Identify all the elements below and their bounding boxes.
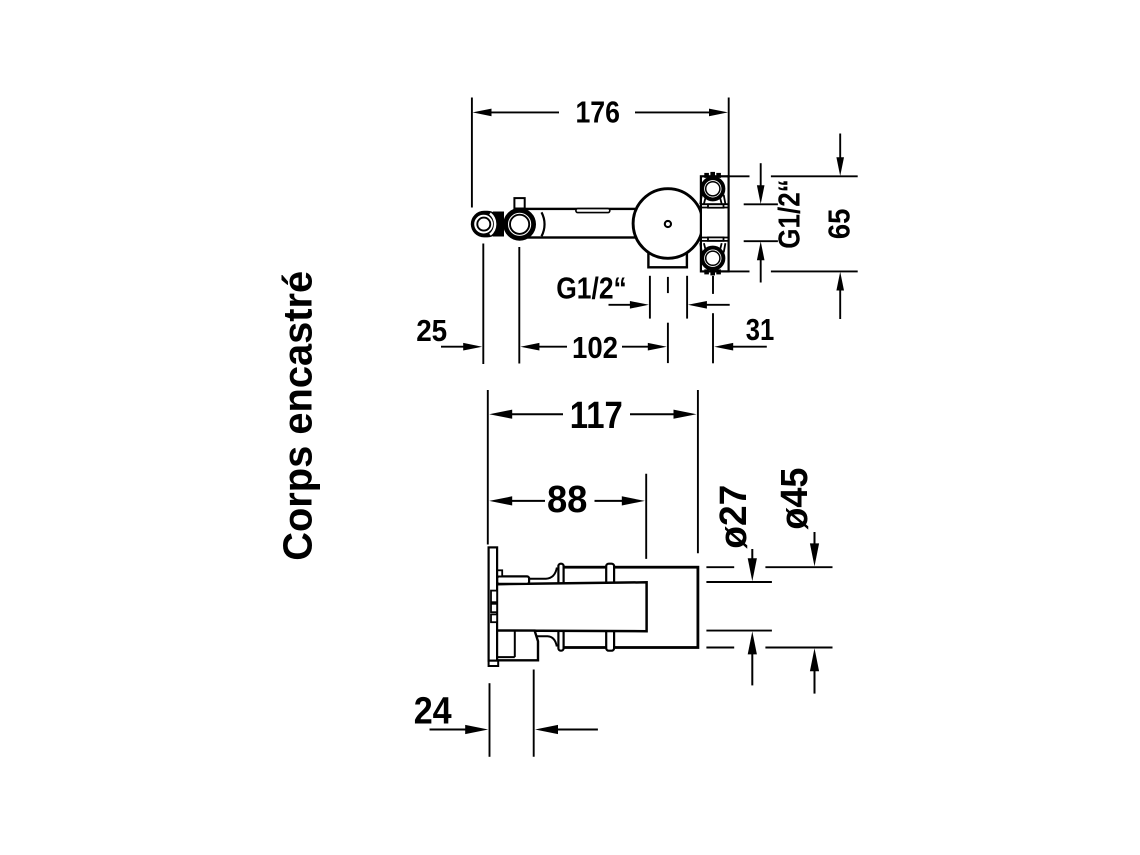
extension line left fitting center — [482, 244, 484, 365]
valve body circle — [633, 189, 703, 259]
dimension G1/2 right arrows — [757, 163, 765, 282]
body bar — [517, 209, 640, 238]
bosses — [491, 591, 497, 603]
label 65 (rotated) — [822, 209, 857, 240]
leader lines ø27 — [706, 581, 772, 583]
label ø27 (rotated) — [713, 485, 755, 549]
fitting nut F2 — [493, 198, 545, 238]
svg-text:25: 25 — [416, 313, 447, 348]
extension line left of dim 24 — [489, 683, 491, 757]
svg-text:24: 24 — [414, 690, 452, 732]
title Corps encastré — [275, 271, 321, 561]
fitting end cap F1 — [471, 211, 501, 238]
collar ring mid — [606, 564, 614, 651]
extension line right fitting center — [712, 276, 714, 363]
svg-text:ø45: ø45 — [774, 468, 816, 530]
label ø45 (rotated) — [774, 468, 816, 530]
svg-text:65: 65 — [822, 209, 857, 240]
dimension 102 — [520, 330, 666, 365]
dimension 88 — [489, 479, 645, 521]
outlet port below valve — [648, 246, 687, 267]
dimension 25 — [416, 313, 482, 351]
dimension 117 — [489, 395, 696, 437]
svg-text:88: 88 — [547, 479, 588, 521]
dimension ø45 arrows — [810, 532, 819, 694]
top step — [497, 570, 502, 576]
bottom inlet fitting — [700, 243, 725, 275]
extension line right of dim 176 — [728, 98, 730, 177]
center dashed line — [667, 277, 669, 363]
dimension 65 arrows — [836, 134, 844, 320]
svg-text:Corps encastré: Corps encastré — [275, 271, 321, 561]
leader lines ø45 — [706, 567, 832, 647]
inner tube — [491, 582, 647, 631]
extension lines under port — [649, 276, 651, 319]
dimension 24 — [414, 690, 598, 734]
svg-text:ø27: ø27 — [713, 485, 755, 549]
svg-text:102: 102 — [572, 330, 618, 365]
neck top — [529, 568, 557, 579]
top inlet fitting — [700, 172, 725, 204]
extension line second fitting center — [518, 247, 520, 364]
svg-text:117: 117 — [570, 395, 623, 437]
extension line left of dim 117 — [487, 390, 489, 545]
extension line right of dim 24 — [533, 670, 535, 757]
label G1/2 right (rotated) — [772, 179, 807, 249]
svg-text:31: 31 — [746, 312, 775, 347]
dimension 31 — [714, 312, 774, 351]
leader lines port bases — [744, 204, 778, 241]
extension line right of dim 117 — [697, 390, 699, 553]
svg-text:G1/2“: G1/2“ — [772, 179, 807, 249]
svg-text:176: 176 — [575, 95, 620, 130]
valve center dot — [665, 221, 671, 227]
dimension ø27 arrows — [748, 549, 757, 685]
plate foot — [489, 661, 499, 666]
svg-text:G1/2“: G1/2“ — [556, 271, 627, 306]
dimension G1/2 bottom arrows — [609, 301, 730, 309]
outer sleeve — [561, 567, 698, 647]
wall plate — [489, 547, 498, 660]
dimension 176 — [473, 95, 729, 130]
leader lines bracket outer edges — [727, 176, 858, 271]
body side view — [489, 547, 698, 666]
collar ring left — [558, 564, 563, 651]
lower block — [491, 631, 538, 661]
extension line right of dim 88 — [645, 474, 647, 559]
extension line left of dim 176 — [471, 98, 473, 208]
wall bracket right — [701, 176, 729, 271]
upper lug — [497, 576, 529, 584]
neck bottom — [536, 636, 557, 646]
